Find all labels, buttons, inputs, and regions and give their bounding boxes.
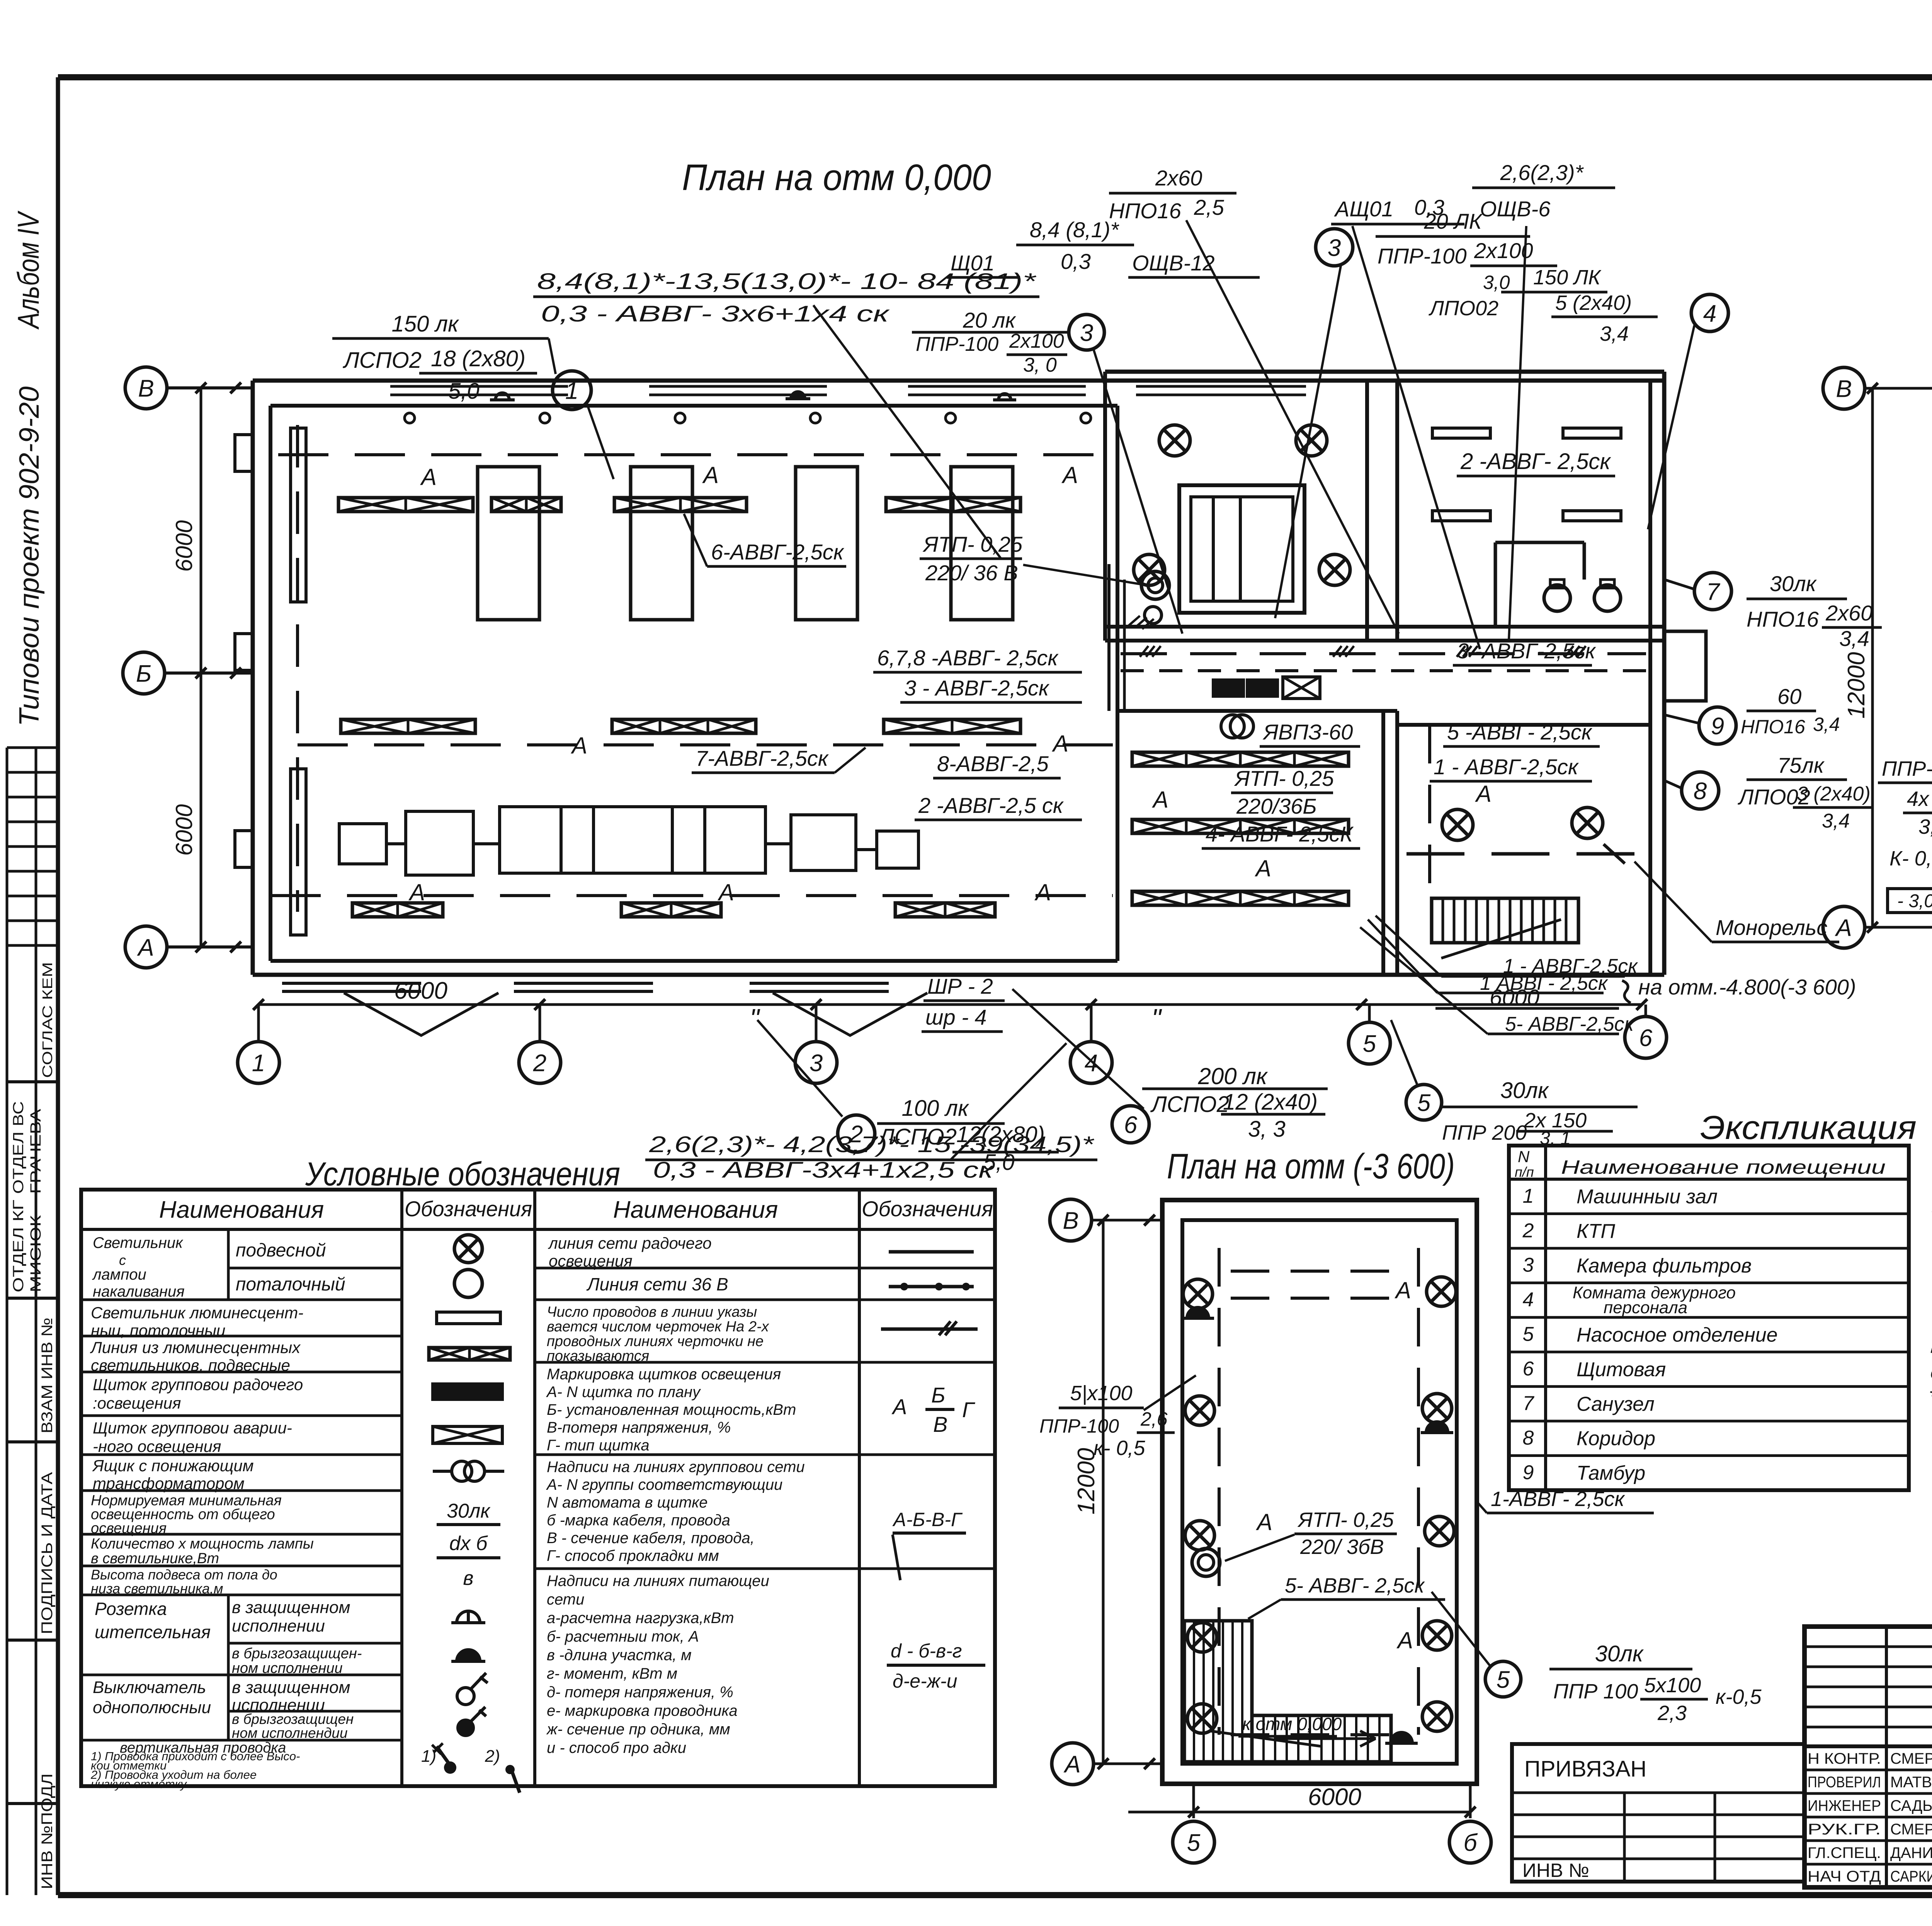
svg-text:Щ01: Щ01 [951, 251, 995, 275]
svg-text:6: 6 [1639, 1025, 1653, 1051]
svg-text:3,0: 3,0 [1483, 272, 1510, 293]
svg-text:сети.: сети. [1930, 1360, 1932, 1384]
svg-text:Розетка: Розетка [95, 1599, 167, 1619]
svg-text:30лк: 30лк [1770, 571, 1817, 596]
svg-text:исполнении: исполнении [232, 1617, 325, 1635]
svg-text:А- N щитка по плану: А- N щитка по плану [546, 1384, 701, 1401]
svg-text:А: А [408, 879, 425, 905]
svg-text:сети: сети [547, 1591, 584, 1608]
svg-text:6000: 6000 [394, 977, 447, 1004]
svg-text:в защищенном: в защищенном [232, 1678, 350, 1697]
svg-text:2,6(2,3)*: 2,6(2,3)* [1500, 160, 1584, 185]
svg-text:": " [750, 1003, 760, 1034]
svg-text:А-Б-В-Г: А-Б-В-Г [892, 1509, 963, 1530]
svg-text:5- АВВГ-2,5ск: 5- АВВГ-2,5ск [1505, 1013, 1635, 1035]
svg-text:ППР 100: ППР 100 [1553, 1680, 1638, 1703]
svg-text:План на отм (-3 600): План на отм (-3 600) [1167, 1147, 1455, 1186]
svg-text:5х100: 5х100 [1644, 1674, 1701, 1697]
svg-text:ЯТП- 0,25: ЯТП- 0,25 [1234, 766, 1334, 790]
svg-text:Наименования: Наименования [159, 1197, 324, 1223]
svg-text:поталочный: поталочный [236, 1274, 345, 1295]
svg-text:20 ЛК: 20 ЛК [1423, 209, 1483, 233]
svg-text:3 -АВВГ-2,5ск: 3 -АВВГ-2,5ск [1457, 639, 1596, 663]
svg-text:и - способ про адки: и - способ про адки [547, 1739, 686, 1756]
svg-text:ЛСПО2: ЛСПО2 [342, 348, 422, 373]
svg-text:100 лк: 100 лк [902, 1096, 970, 1121]
svg-text:2: 2 [1522, 1219, 1534, 1242]
svg-text:А: А [1475, 781, 1492, 807]
svg-text:г- момент, кВт м: г- момент, кВт м [547, 1665, 677, 1682]
svg-text:Санузел: Санузел [1577, 1393, 1655, 1415]
svg-text:30лк: 30лк [1500, 1078, 1549, 1103]
svg-text:в брызгозащищен: в брызгозащищен [232, 1711, 354, 1727]
svg-text:на отм.-4.800(-3 600): на отм.-4.800(-3 600) [1638, 975, 1856, 999]
svg-text:1: 1 [252, 1050, 265, 1076]
svg-text:5 -АВВГ- 2,5ск: 5 -АВВГ- 2,5ск [1447, 720, 1593, 744]
svg-text:18 (2х80): 18 (2х80) [431, 346, 526, 371]
svg-text:2х60: 2х60 [1825, 601, 1872, 625]
svg-text:ДАНИЛОВ: ДАНИЛОВ [1890, 1844, 1932, 1861]
svg-text:ОТДЕЛ КГ: ОТДЕЛ КГ [10, 1200, 27, 1292]
svg-text:ПРОВЕРИЛ: ПРОВЕРИЛ [1808, 1774, 1881, 1791]
svg-text:А: А [571, 733, 587, 758]
svg-text:ШР - 2: ШР - 2 [927, 974, 993, 998]
svg-text:ОЩВ-6: ОЩВ-6 [1480, 197, 1551, 221]
svg-text:Щиток групповои радочего: Щиток групповои радочего [93, 1375, 303, 1394]
svg-text:Г- тип щитка: Г- тип щитка [547, 1437, 650, 1454]
svg-text:- 3,0 0 0: - 3,0 0 0 [1897, 891, 1932, 911]
svg-text:ГЛ.СПЕЦ.: ГЛ.СПЕЦ. [1808, 1844, 1881, 1861]
svg-text:ППР 200: ППР 200 [1442, 1121, 1527, 1144]
svg-text:освещения: освещения [549, 1252, 633, 1270]
svg-text:5- АВВГ- 2,5ск: 5- АВВГ- 2,5ск [1285, 1574, 1425, 1597]
svg-text:150 лк: 150 лк [392, 311, 460, 337]
svg-text:4: 4 [1703, 300, 1716, 327]
svg-text:": " [1151, 1003, 1162, 1034]
svg-text:Б- установленная мощность,кВт: Б- установленная мощность,кВт [547, 1401, 796, 1418]
svg-text:ППР-200: ППР-200 [1882, 757, 1932, 780]
svg-text:б: б [1464, 1829, 1478, 1856]
svg-text:Б: Б [136, 660, 151, 687]
svg-text:б -марка кабеля, провода: б -марка кабеля, провода [547, 1512, 730, 1529]
svg-text:д- потеря напряжения, %: д- потеря напряжения, % [547, 1684, 733, 1701]
svg-text:3,4: 3,4 [1822, 810, 1850, 832]
svg-text:220/36Б: 220/36Б [1236, 794, 1317, 818]
svg-text:САРКИСЬЯНЦ: САРКИСЬЯНЦ [1890, 1868, 1932, 1885]
svg-text:персонала: персонала [1604, 1298, 1687, 1317]
svg-text:8: 8 [1694, 778, 1707, 804]
svg-text:2,5: 2,5 [1194, 195, 1225, 219]
svg-text:Тамбур: Тамбур [1577, 1462, 1645, 1484]
svg-text:НПО16: НПО16 [1741, 716, 1805, 738]
svg-text:Коридор: Коридор [1577, 1428, 1655, 1450]
svg-text:3: 3 [810, 1050, 823, 1076]
svg-text:А: А [136, 934, 154, 961]
svg-text:3 (2х40): 3 (2х40) [1797, 783, 1871, 805]
svg-text:Щитовая: Щитовая [1577, 1358, 1666, 1381]
svg-text:* В скобах приведены Величины: * В скобах приведены Величины для вариан… [1928, 1384, 1932, 1409]
svg-text:6000: 6000 [171, 520, 197, 572]
svg-text:освещения: освещения [91, 1520, 167, 1537]
svg-text:3,4: 3,4 [1600, 322, 1629, 345]
svg-text:dх б: dх б [449, 1532, 488, 1555]
svg-text:СМЕРДОВА: СМЕРДОВА [1890, 1750, 1932, 1767]
svg-text:12 (2х40): 12 (2х40) [1223, 1090, 1318, 1115]
svg-text:ЛПО02: ЛПО02 [1429, 297, 1498, 320]
svg-text:5: 5 [1523, 1323, 1534, 1346]
svg-text:к отм 0,000: к отм 0,000 [1242, 1714, 1342, 1734]
svg-text:Условные обозначения: Условные обозначения [305, 1156, 620, 1193]
svg-text:СОГЛАС КЕМ: СОГЛАС КЕМ [39, 962, 55, 1078]
svg-text:4: 4 [1523, 1289, 1534, 1311]
svg-text:75лк: 75лк [1777, 753, 1825, 777]
svg-text:1 - АВВГ-2,5ск: 1 - АВВГ-2,5ск [1434, 755, 1579, 779]
svg-text:Линия из люминесцентных: Линия из люминесцентных [90, 1338, 301, 1357]
svg-text:7: 7 [1523, 1392, 1535, 1414]
svg-text:б- расчетныи ток, А: б- расчетныи ток, А [547, 1628, 699, 1645]
svg-text:3, 3: 3, 3 [1248, 1117, 1286, 1142]
svg-text:Монорельс: Монорельс [1716, 915, 1827, 940]
svg-text:2,6: 2,6 [1140, 1408, 1168, 1430]
svg-text:200 лк: 200 лк [1198, 1063, 1269, 1089]
svg-text:в защищенном: в защищенном [232, 1598, 350, 1617]
svg-text:0,3: 0,3 [1061, 249, 1091, 274]
svg-text:6000: 6000 [1308, 1784, 1361, 1810]
svg-text:подвесной: подвесной [236, 1240, 326, 1261]
svg-text:5: 5 [1363, 1030, 1376, 1057]
svg-text:Обозначения: Обозначения [405, 1197, 532, 1221]
svg-text:3: 3 [1328, 235, 1341, 261]
svg-text:2 -АВВГ- 2,5ск: 2 -АВВГ- 2,5ск [1460, 449, 1611, 474]
svg-text:Количество х мощность лампы: Количество х мощность лампы [91, 1536, 314, 1552]
svg-text:20 лк: 20 лк [963, 308, 1016, 332]
svg-text:В-потеря напряжения, %: В-потеря напряжения, % [547, 1419, 731, 1436]
svg-text:МИСЮК: МИСЮК [28, 1215, 44, 1292]
svg-text:трансформатором: трансформатором [93, 1474, 245, 1493]
svg-text:1: 1 [565, 377, 578, 404]
svg-text:Наименование помещении: Наименование помещении [1561, 1156, 1886, 1178]
svg-text:светильников, подвесные: светильников, подвесные [91, 1356, 290, 1374]
svg-text:МАТВЕЕВА: МАТВЕЕВА [1890, 1774, 1932, 1791]
svg-text:А: А [420, 464, 437, 490]
svg-text:А: А [1256, 1509, 1272, 1535]
svg-text:Машинныи зал: Машинныи зал [1577, 1186, 1718, 1208]
svg-text:220/ 3бВ: 220/ 3бВ [1300, 1535, 1384, 1559]
svg-text:Обозначения: Обозначения [862, 1197, 993, 1221]
svg-text:в светильнике,Вт: в светильнике,Вт [91, 1550, 219, 1567]
svg-text:Ящик с понижающим: Ящик с понижающим [92, 1457, 254, 1475]
svg-text:5: 5 [1417, 1090, 1431, 1116]
svg-text:ИНВ №: ИНВ № [1522, 1860, 1589, 1881]
svg-text:А: А [891, 1394, 907, 1419]
svg-text:2х60: 2х60 [1155, 166, 1202, 190]
svg-text:Г- способ прокладки мм: Г- способ прокладки мм [547, 1547, 719, 1564]
svg-text:6000: 6000 [1490, 985, 1539, 1010]
svg-text:Б: Б [931, 1383, 945, 1407]
svg-text:Г: Г [962, 1397, 975, 1422]
svg-text:д-е-ж-и: д-е-ж-и [893, 1670, 957, 1692]
svg-text:-ного освещения: -ного освещения [93, 1437, 221, 1455]
svg-text:4- АВВГ- 2,5сК: 4- АВВГ- 2,5сК [1206, 822, 1354, 846]
svg-text:АЩ01: АЩ01 [1334, 197, 1393, 221]
svg-text:1: 1 [1523, 1185, 1534, 1207]
svg-text:Маркировка щитков освещения: Маркировка щитков освещения [547, 1366, 781, 1383]
svg-text:12000: 12000 [1843, 652, 1870, 719]
svg-text:А- N группы соответствующии: А- N группы соответствующии [546, 1476, 782, 1493]
svg-text:Типовои проект 902-9-20: Типовои проект 902-9-20 [14, 386, 45, 726]
svg-text:d - б-в-г: d - б-в-г [891, 1640, 962, 1662]
svg-text:8: 8 [1523, 1427, 1534, 1449]
svg-text:лампои: лампои [92, 1266, 146, 1283]
svg-text:показываются: показываются [547, 1348, 649, 1364]
svg-text:Альбом IV: Альбом IV [11, 210, 45, 330]
svg-text:с: с [119, 1252, 126, 1268]
svg-text:вается числом черточек На 2: вается числом черточек На 2-х [547, 1319, 770, 1335]
svg-text:8,4 (8,1)*: 8,4 (8,1)* [1030, 218, 1120, 242]
svg-text:3,4: 3,4 [1813, 714, 1840, 735]
svg-text:4х 200: 4х 200 [1907, 787, 1932, 811]
svg-text:1): 1) [421, 1747, 436, 1766]
svg-text:ГРАЧЕВА: ГРАЧЕВА [28, 1108, 44, 1194]
svg-text:В: В [1836, 376, 1852, 402]
svg-text:Выключатель: Выключатель [93, 1678, 206, 1697]
svg-text:Н КОНТР.: Н КОНТР. [1808, 1750, 1881, 1767]
svg-text:п/п: п/п [1515, 1164, 1534, 1180]
svg-text:220/ 36 В: 220/ 36 В [925, 561, 1018, 585]
svg-text:А: А [1152, 787, 1168, 813]
svg-text:ж- сечение пр одника, мм: ж- сечение пр одника, мм [546, 1721, 730, 1738]
svg-text:5,0: 5,0 [448, 379, 480, 404]
svg-text:А: А [1395, 1277, 1411, 1303]
svg-text:3 - АВВГ-2,5ск: 3 - АВВГ-2,5ск [904, 676, 1050, 700]
svg-text:ВЗАМ ИНВ №: ВЗАМ ИНВ № [39, 1317, 56, 1433]
svg-text:СМЕРДОВА: СМЕРДОВА [1890, 1821, 1932, 1838]
svg-text:5: 5 [1497, 1666, 1510, 1693]
svg-text:5: 5 [1187, 1829, 1201, 1856]
svg-text:6: 6 [1523, 1358, 1534, 1380]
svg-text:150 ЛК: 150 ЛК [1533, 266, 1602, 289]
svg-text:4: 4 [1085, 1050, 1098, 1076]
svg-text:Линия сети 36 В: Линия сети 36 В [586, 1274, 728, 1294]
svg-text:вания используется нулевой ра: вания используется нулевой рабочии прово… [1930, 1333, 1932, 1358]
svg-text:3, 0: 3, 0 [1023, 354, 1057, 376]
svg-text:Экспликация: Экспликация [1700, 1109, 1917, 1146]
svg-text:7: 7 [1706, 578, 1721, 605]
svg-text:5 (2х40): 5 (2х40) [1555, 291, 1632, 314]
svg-text:В: В [138, 375, 154, 402]
svg-text:а-расчетна нагрузка,кВт: а-расчетна нагрузка,кВт [547, 1610, 734, 1627]
svg-text:в брызгозащищен-: в брызгозащищен- [232, 1646, 362, 1662]
svg-text:НПО16: НПО16 [1747, 607, 1819, 631]
svg-text:9: 9 [1711, 713, 1724, 739]
svg-text:В - сечение кабеля, провода,: В - сечение кабеля, провода, [547, 1530, 755, 1547]
svg-text:План на отм 0,000: План на отм 0,000 [682, 157, 991, 198]
svg-text:6,7,8 -АВВГ- 2,5ск: 6,7,8 -АВВГ- 2,5ск [877, 646, 1059, 670]
svg-text:ППР-100: ППР-100 [1378, 244, 1467, 268]
svg-text:Наименования: Наименования [613, 1197, 778, 1223]
svg-text:ИНВ №ПОДЛ: ИНВ №ПОДЛ [39, 1773, 56, 1889]
svg-text:ОТДЕЛ ВС: ОТДЕЛ ВС [10, 1101, 27, 1194]
svg-text:Высота подвеса от пола до: Высота подвеса от пола до [91, 1567, 277, 1583]
svg-text:Число проводов в линии указы: Число проводов в линии указы [547, 1304, 757, 1320]
svg-text:0,3 - АВВГ- 3х6+1х4 ск: 0,3 - АВВГ- 3х6+1х4 ск [541, 301, 890, 326]
svg-text:А: А [718, 879, 734, 905]
svg-text:3: 3 [1080, 320, 1093, 346]
svg-text:ЯТП- 0,25: ЯТП- 0,25 [1297, 1508, 1394, 1532]
svg-text:2,6(2,3)*- 4,2(3,7)*- 15 -39(: 2,6(2,3)*- 4,2(3,7)*- 15 -39(34,5)* [649, 1132, 1095, 1157]
svg-text:5|х100: 5|х100 [1070, 1382, 1132, 1405]
svg-text:ПРИВЯЗАН: ПРИВЯЗАН [1524, 1756, 1646, 1782]
svg-text:накаливания: накаливания [93, 1283, 185, 1300]
svg-text:Светильник: Светильник [93, 1234, 184, 1251]
svg-text:Щиток групповои аварии-: Щиток групповои аварии- [93, 1419, 292, 1437]
svg-text::освещения: :освещения [93, 1394, 181, 1412]
svg-text:проводных линиях черточки не: проводных линиях черточки не [547, 1333, 764, 1350]
svg-text:А: А [1396, 1627, 1413, 1653]
svg-text:низа светильника,м: низа светильника,м [91, 1581, 223, 1596]
svg-text:Светильник люминесцент-: Светильник люминесцент- [91, 1304, 303, 1322]
svg-text:ЛСПО2: ЛСПО2 [1150, 1092, 1229, 1117]
svg-text:ЯВПЗ-60: ЯВПЗ-60 [1262, 720, 1353, 744]
svg-text:е- маркировка проводника: е- маркировка проводника [547, 1702, 738, 1719]
svg-text:в -длина участка, м: в -длина участка, м [547, 1647, 692, 1664]
svg-text:А: А [702, 462, 719, 488]
svg-text:НПО16: НПО16 [1109, 199, 1182, 223]
svg-text:А: А [1834, 915, 1852, 941]
svg-text:А: А [1255, 855, 1271, 881]
svg-text:в: в [463, 1567, 473, 1589]
svg-text:А: А [1052, 731, 1068, 756]
svg-text:ИНЖЕНЕР: ИНЖЕНЕР [1808, 1797, 1881, 1814]
svg-text:ППР-100: ППР-100 [1039, 1415, 1119, 1437]
svg-text:к-0,5: к-0,5 [1716, 1685, 1762, 1708]
svg-text:9: 9 [1523, 1461, 1534, 1484]
svg-text:Насосное отделение: Насосное отделение [1577, 1324, 1778, 1346]
svg-text:N автомата в щитке: N автомата в щитке [547, 1494, 707, 1511]
svg-text:8-АВВГ-2,5: 8-АВВГ-2,5 [937, 751, 1049, 776]
svg-text:ПОДПИСЬ И ДАТА: ПОДПИСЬ И ДАТА [39, 1472, 56, 1634]
svg-text:2 -АВВГ-2,5 ск: 2 -АВВГ-2,5 ск [918, 793, 1064, 818]
svg-text:Камера фильтров: Камера фильтров [1577, 1255, 1752, 1277]
svg-text:6-АВВГ-2,5ск: 6-АВВГ-2,5ск [711, 540, 845, 564]
svg-text:шр - 4: шр - 4 [925, 1005, 987, 1029]
svg-text:В: В [933, 1412, 947, 1436]
svg-text:60: 60 [1777, 684, 1801, 709]
svg-text:2х100: 2х100 [1009, 330, 1064, 352]
svg-text:N: N [1518, 1147, 1530, 1166]
svg-text:К- 0,5: К- 0,5 [1889, 847, 1932, 870]
svg-text:А: А [1034, 879, 1051, 905]
svg-text:В: В [1063, 1207, 1078, 1234]
svg-text:ном исполнении: ном исполнении [232, 1660, 343, 1676]
svg-text:3: 3 [1523, 1254, 1534, 1277]
svg-text:ОЩВ-12: ОЩВ-12 [1132, 251, 1215, 275]
svg-text:к- 0,5: к- 0,5 [1094, 1436, 1146, 1460]
svg-text:3,4: 3,4 [1839, 626, 1869, 651]
svg-text:штепсельная: штепсельная [95, 1622, 211, 1642]
svg-text:линия сети радочего: линия сети радочего [548, 1234, 712, 1252]
svg-text:3,6: 3,6 [1918, 815, 1932, 838]
svg-text:6: 6 [1124, 1112, 1138, 1138]
svg-text:2): 2) [485, 1747, 500, 1766]
svg-text:30лк: 30лк [1595, 1641, 1644, 1666]
svg-text:НАЧ ОТД: НАЧ ОТД [1808, 1868, 1881, 1885]
svg-text:низкую отметку.: низкую отметку. [91, 1777, 189, 1791]
svg-text:7-АВВГ-2,5ск: 7-АВВГ-2,5ск [696, 746, 829, 770]
svg-text:6000: 6000 [171, 804, 197, 856]
svg-text:А: А [1061, 462, 1078, 488]
svg-text:однополюсныи: однополюсныи [93, 1698, 211, 1717]
svg-text:ныи, потолочныи: ныи, потолочныи [91, 1321, 225, 1340]
svg-text:Надписи на линиях питающеи: Надписи на линиях питающеи [547, 1572, 769, 1589]
svg-text:РУК.ГР.: РУК.ГР. [1808, 1821, 1881, 1838]
svg-text:ППР-100: ППР-100 [916, 333, 998, 355]
svg-text:ЯТП- 0,25: ЯТП- 0,25 [922, 532, 1023, 556]
svg-text:0,3 - АВВГ-3х4+1х2,5 ск: 0,3 - АВВГ-3х4+1х2,5 ск [653, 1158, 995, 1183]
svg-text:Надписи на линиях групповои се: Надписи на линиях групповои сети [547, 1459, 805, 1476]
svg-text:КТП: КТП [1577, 1220, 1615, 1243]
svg-text:30лк: 30лк [447, 1500, 491, 1522]
svg-text:2,3: 2,3 [1657, 1702, 1687, 1725]
svg-text:2: 2 [533, 1050, 546, 1076]
svg-text:А: А [1063, 1751, 1080, 1778]
svg-text:ном исполнендии: ном исполнендии [232, 1725, 348, 1741]
svg-text:САДЫМ: САДЫМ [1890, 1797, 1932, 1814]
